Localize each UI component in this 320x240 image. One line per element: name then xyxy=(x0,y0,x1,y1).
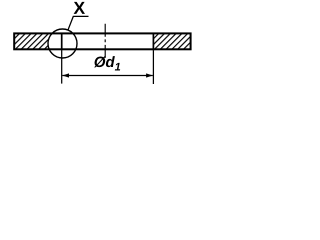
extension line right xyxy=(152,50,154,84)
dimension text Ød1 xyxy=(94,56,120,70)
hole left edge xyxy=(61,33,63,51)
centerline xyxy=(104,24,106,59)
arrowhead left xyxy=(62,73,69,77)
dimension line xyxy=(62,75,153,77)
extension line left xyxy=(61,50,63,83)
hole right edge xyxy=(152,33,154,51)
arrowhead right xyxy=(146,73,153,77)
washer outline xyxy=(14,33,190,49)
label X xyxy=(74,2,85,14)
leader line xyxy=(68,16,89,30)
hatch left section xyxy=(14,33,62,49)
hatch right section xyxy=(153,33,190,49)
detail circle X (white mask + stroke) xyxy=(48,29,77,58)
